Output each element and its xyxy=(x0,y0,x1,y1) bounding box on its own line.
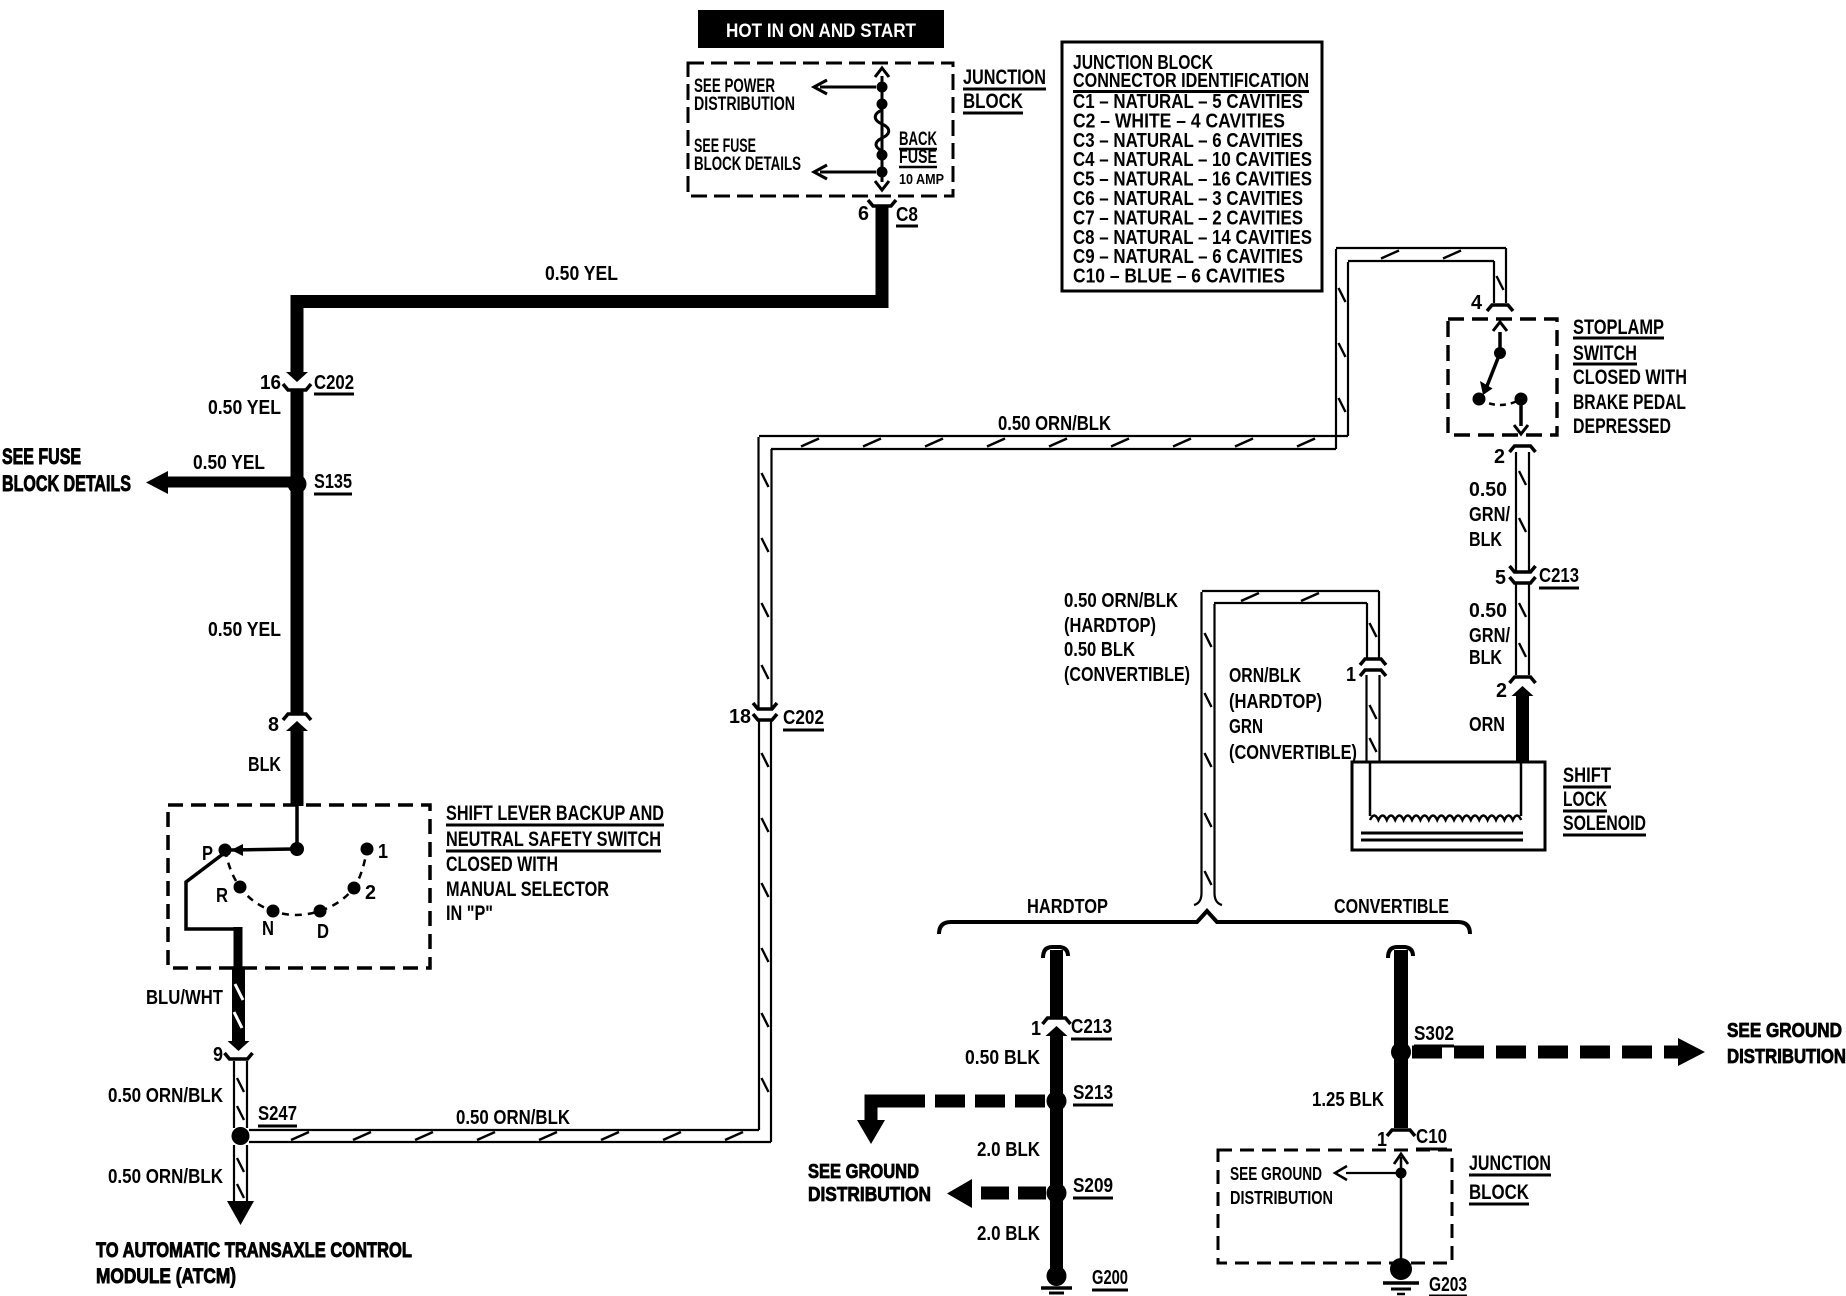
svg-text:C10: C10 xyxy=(1416,1126,1447,1148)
svg-text:ORN/BLK: ORN/BLK xyxy=(1229,665,1301,687)
svg-text:SEE GROUND: SEE GROUND xyxy=(1727,1020,1842,1042)
svg-text:0.50 ORN/BLK: 0.50 ORN/BLK xyxy=(456,1107,570,1129)
wire: 0.50 YEL horizontal xyxy=(291,295,889,308)
wire: drop to stoplamp pin 4 (hatched) xyxy=(1493,261,1495,303)
svg-text:GRN: GRN xyxy=(1229,716,1263,738)
fuse: BACK FUSE squiggle xyxy=(875,110,889,151)
svg-text:SHIFT: SHIFT xyxy=(1563,764,1611,787)
arrow SEE FUSE BLOCK DETAILS (S135) xyxy=(168,477,297,488)
node S247 xyxy=(232,1127,250,1145)
svg-text:HARDTOP: HARDTOP xyxy=(1027,896,1108,918)
shift lever switch dashed box xyxy=(168,805,430,968)
svg-text:CONNECTOR IDENTIFICATION: CONNECTOR IDENTIFICATION xyxy=(1073,70,1309,92)
svg-text:16: 16 xyxy=(260,372,281,394)
node S209 xyxy=(1047,1183,1067,1203)
svg-text:BLOCK DETAILS: BLOCK DETAILS xyxy=(2,471,131,496)
node S135 xyxy=(288,475,307,494)
svg-text:5: 5 xyxy=(1495,567,1506,589)
wire: S213 to S209 (thick) xyxy=(1050,1101,1063,1193)
wire 0.50 GRN/BLK lower (hatched) xyxy=(1515,583,1517,675)
svg-text:IN "P": IN "P" xyxy=(446,902,493,925)
wiper arrowhead at P xyxy=(231,844,243,856)
svg-text:(CONVERTIBLE): (CONVERTIBLE) xyxy=(1229,742,1357,764)
svg-text:1: 1 xyxy=(1377,1129,1387,1151)
arrow to ATCM xyxy=(227,1201,254,1225)
svg-text:MODULE (ATCM): MODULE (ATCM) xyxy=(96,1265,236,1288)
svg-text:0.50 ORN/BLK: 0.50 ORN/BLK xyxy=(998,413,1111,435)
svg-text:0.50 ORN/BLK: 0.50 ORN/BLK xyxy=(108,1166,223,1188)
svg-text:2.0 BLK: 2.0 BLK xyxy=(977,1223,1040,1245)
svg-text:JUNCTION: JUNCTION xyxy=(1469,1152,1551,1175)
svg-text:0.50 BLK: 0.50 BLK xyxy=(965,1047,1040,1069)
svg-text:2: 2 xyxy=(365,882,376,904)
header box HOT IN ON AND START xyxy=(698,10,944,48)
wire: top of inverted U (hatched) xyxy=(1202,590,1379,592)
svg-text:DISTRIBUTION: DISTRIBUTION xyxy=(694,94,795,115)
svg-text:S209: S209 xyxy=(1073,1175,1113,1197)
node: fuse block tap xyxy=(877,167,888,178)
connector stoplamp pin 4 xyxy=(1487,305,1513,311)
connector stoplamp pin 2 xyxy=(1510,446,1536,452)
svg-text:C213: C213 xyxy=(1539,565,1579,587)
svg-text:6: 6 xyxy=(858,203,869,225)
svg-text:2: 2 xyxy=(1496,680,1507,702)
wire 0.50 GRN/BLK upper (hatched) xyxy=(1515,452,1517,571)
svg-text:G203: G203 xyxy=(1429,1274,1467,1296)
junction block (top) dashed box xyxy=(688,63,953,196)
wire 0.50 ORN/BLK: pin9 to S247 (hatched) xyxy=(233,1061,235,1128)
contact P xyxy=(219,844,232,857)
svg-text:2.0 BLK: 2.0 BLK xyxy=(977,1139,1040,1161)
svg-text:(HARDTOP): (HARDTOP) xyxy=(1064,615,1156,637)
connector solenoid pin 1 xyxy=(1360,659,1386,665)
wire: pivot to P contact xyxy=(231,849,293,850)
contact 2 xyxy=(348,882,361,895)
svg-text:9: 9 xyxy=(213,1044,223,1066)
stoplamp: output arrow down xyxy=(1519,404,1523,426)
stoplamp: fixed contact top xyxy=(1494,347,1506,359)
node: power distribution tap xyxy=(877,82,888,93)
connector C10 pin 1 xyxy=(1387,1130,1415,1136)
wire: pin 1 to solenoid (hatched) xyxy=(1365,675,1367,762)
contact 1 xyxy=(361,843,374,856)
wire: switch feed (thin, inside box) xyxy=(295,806,299,845)
svg-text:1: 1 xyxy=(1031,1018,1041,1040)
connector C202 pin 18 xyxy=(753,703,777,709)
node S213 xyxy=(1047,1091,1067,1111)
svg-text:ORN: ORN xyxy=(1469,714,1505,736)
wire: vertical riser below C202-18 (hatched) xyxy=(758,719,760,1130)
wire ORN (thick) xyxy=(1516,694,1529,762)
wire: C8-6 down (thick) xyxy=(876,206,889,308)
svg-text:CLOSED WITH: CLOSED WITH xyxy=(1573,366,1687,389)
svg-text:GRN/: GRN/ xyxy=(1469,504,1510,526)
junction block connector identification box xyxy=(1062,42,1322,291)
svg-text:0.50 ORN/BLK: 0.50 ORN/BLK xyxy=(108,1085,223,1107)
ground G200 xyxy=(1047,1266,1067,1286)
junction block (bottom) dashed box xyxy=(1218,1150,1452,1263)
svg-text:1.25 BLK: 1.25 BLK xyxy=(1312,1089,1384,1111)
svg-text:8: 8 xyxy=(268,714,279,736)
svg-text:SEE GROUND: SEE GROUND xyxy=(808,1161,919,1183)
svg-text:S302: S302 xyxy=(1414,1023,1454,1045)
svg-text:DISTRIBUTION: DISTRIBUTION xyxy=(808,1184,931,1206)
svg-text:C10 – BLUE – 6 CAVITIES: C10 – BLUE – 6 CAVITIES xyxy=(1073,266,1285,288)
svg-text:0.50 YEL: 0.50 YEL xyxy=(208,397,281,419)
svg-text:SEE FUSE: SEE FUSE xyxy=(2,444,81,469)
hardtop wire top hook xyxy=(1043,947,1068,958)
svg-text:BLOCK: BLOCK xyxy=(963,90,1023,113)
wire: junction block internal bus xyxy=(881,76,884,182)
dashed arrow SEE GROUND DISTRIBUTION (S213) xyxy=(898,1095,1045,1108)
svg-text:SWITCH: SWITCH xyxy=(1573,342,1637,365)
svg-text:2: 2 xyxy=(1494,446,1505,468)
svg-text:HOT IN ON AND START: HOT IN ON AND START xyxy=(726,21,916,42)
wire: C213-1 to S213 (thick) xyxy=(1050,1034,1063,1101)
svg-text:C202: C202 xyxy=(314,372,354,394)
svg-text:(HARDTOP): (HARDTOP) xyxy=(1229,691,1322,713)
wire: C10 to G203 (thin, internal) xyxy=(1400,1157,1403,1265)
wire 0.50 ORN/BLK: S247 horizontal run (hatched) xyxy=(249,1129,759,1131)
svg-text:(CONVERTIBLE): (CONVERTIBLE) xyxy=(1064,664,1190,686)
solenoid: inner left wall xyxy=(1369,762,1372,816)
svg-text:BRAKE PEDAL: BRAKE PEDAL xyxy=(1573,391,1686,414)
wire: riser to top right (hatched) xyxy=(1335,249,1337,449)
arrow up (to power distribution feed) xyxy=(875,68,889,77)
svg-text:BLK: BLK xyxy=(248,754,281,776)
contact N xyxy=(267,905,280,918)
svg-text:BLOCK DETAILS: BLOCK DETAILS xyxy=(694,154,801,175)
svg-text:1: 1 xyxy=(1346,664,1356,686)
connector pin 9 xyxy=(228,1041,250,1051)
svg-text:DEPRESSED: DEPRESSED xyxy=(1573,415,1671,438)
svg-text:STOPLAMP: STOPLAMP xyxy=(1573,316,1664,339)
dashed arc through contacts xyxy=(225,849,367,915)
svg-text:0.50: 0.50 xyxy=(1469,600,1507,622)
stoplamp: contact right xyxy=(1515,393,1528,406)
svg-text:FUSE: FUSE xyxy=(899,147,937,168)
svg-text:D: D xyxy=(317,921,329,943)
wire end curls at brace xyxy=(1194,893,1202,905)
connector C213 pin 5 xyxy=(1510,566,1536,572)
node: switch pivot xyxy=(290,842,304,856)
wire: S209 to G200 (thick) xyxy=(1050,1193,1063,1271)
svg-text:C213: C213 xyxy=(1071,1016,1112,1038)
stoplamp: dashed arc between contacts xyxy=(1479,399,1521,405)
svg-text:BLU/WHT: BLU/WHT xyxy=(146,987,223,1009)
connector C213 pin 2 xyxy=(1510,677,1536,683)
svg-text:N: N xyxy=(262,918,274,940)
solenoid: inner right wall xyxy=(1520,762,1523,816)
svg-text:1: 1 xyxy=(378,841,388,863)
wire: 0.50 YEL down to C202-16 xyxy=(291,295,304,373)
svg-text:DISTRIBUTION: DISTRIBUTION xyxy=(1230,1188,1333,1208)
svg-text:18: 18 xyxy=(729,706,751,728)
wire ORN/BLK-GRN: brace riser (hatched) xyxy=(1200,592,1202,893)
wire: P contact to box exit xyxy=(186,854,238,929)
ground G203 xyxy=(1390,1258,1412,1280)
svg-text:MANUAL SELECTOR: MANUAL SELECTOR xyxy=(446,878,609,901)
connector C202 pin 8 xyxy=(283,714,311,720)
svg-text:R: R xyxy=(216,885,228,907)
wire: drop to solenoid pin 1 (hatched) xyxy=(1366,603,1368,659)
svg-text:S247: S247 xyxy=(258,1103,297,1125)
solenoid core lines xyxy=(1361,832,1523,835)
stoplamp switch dashed box xyxy=(1448,319,1557,435)
contact R xyxy=(234,881,247,894)
shift lock solenoid box xyxy=(1352,762,1545,850)
wire: top right horizontal (hatched) xyxy=(1336,247,1506,249)
arrow SEE GROUND DISTRIBUTION (internal) xyxy=(1346,1172,1401,1174)
node: fuse top xyxy=(877,99,888,110)
svg-text:G200: G200 xyxy=(1092,1267,1128,1289)
svg-text:0.50: 0.50 xyxy=(1469,479,1507,501)
svg-text:TO AUTOMATIC TRANSAXLE CONTROL: TO AUTOMATIC TRANSAXLE CONTROL xyxy=(96,1239,412,1262)
arrow down (back fuse output) xyxy=(875,181,889,190)
svg-text:SOLENOID: SOLENOID xyxy=(1563,812,1646,835)
svg-text:BLOCK: BLOCK xyxy=(1469,1181,1529,1204)
dashed arrow SEE GROUND DISTRIBUTION (S209) xyxy=(974,1187,1046,1200)
solenoid coil xyxy=(1370,816,1521,821)
brace hardtop/convertible xyxy=(939,911,1470,934)
wire 0.50 ORN/BLK: S247 down (hatched) xyxy=(233,1145,235,1201)
connector C213 pin 1 xyxy=(1043,1018,1071,1024)
node: fuse bottom xyxy=(877,150,888,161)
white stripe ticks on BLU/WHT xyxy=(235,984,243,1000)
svg-text:0.50 YEL: 0.50 YEL xyxy=(193,452,265,474)
svg-text:BLK: BLK xyxy=(1469,647,1502,669)
svg-text:S135: S135 xyxy=(314,471,352,493)
arrow SEE POWER DISTRIBUTION xyxy=(820,86,876,89)
svg-text:0.50 YEL: 0.50 YEL xyxy=(545,263,618,285)
svg-text:CONVERTIBLE: CONVERTIBLE xyxy=(1334,896,1449,918)
svg-text:BLK: BLK xyxy=(1469,529,1502,551)
wire: C202-8 into switch box xyxy=(291,729,304,806)
svg-text:NEUTRAL SAFETY SWITCH: NEUTRAL SAFETY SWITCH xyxy=(446,828,661,851)
svg-text:SHIFT LEVER BACKUP AND: SHIFT LEVER BACKUP AND xyxy=(446,802,664,825)
connector C8 pin 6 (cup) xyxy=(868,200,896,206)
wire: BLU/WHT (switch to pin 9) xyxy=(232,968,245,1042)
contact D xyxy=(314,905,327,918)
svg-text:S213: S213 xyxy=(1073,1082,1113,1104)
stoplamp: moving contact arm xyxy=(1487,353,1500,386)
svg-text:C8: C8 xyxy=(896,204,918,226)
svg-text:CLOSED WITH: CLOSED WITH xyxy=(446,853,558,876)
svg-text:GRN/: GRN/ xyxy=(1469,625,1510,647)
stoplamp: wire to pin 4 (internal) xyxy=(1498,332,1502,350)
node S302 xyxy=(1391,1042,1411,1062)
wire: convertible ground (thick) xyxy=(1394,950,1408,1128)
svg-text:SEE GROUND: SEE GROUND xyxy=(1230,1164,1322,1184)
svg-text:0.50 ORN/BLK: 0.50 ORN/BLK xyxy=(1064,590,1178,612)
stoplamp: arm arrowhead xyxy=(1480,381,1493,395)
wire: vertical riser above C202-18 (hatched) xyxy=(757,437,759,708)
connector C202 pin 16 xyxy=(286,372,308,382)
svg-text:0.50 YEL: 0.50 YEL xyxy=(208,619,281,641)
svg-text:0.50 BLK: 0.50 BLK xyxy=(1064,639,1135,661)
svg-text:4: 4 xyxy=(1471,292,1483,314)
wire 0.50 ORN/BLK: long horizontal (hatched) xyxy=(759,435,1348,437)
svg-text:DISTRIBUTION: DISTRIBUTION xyxy=(1727,1046,1846,1068)
svg-text:LOCK: LOCK xyxy=(1563,788,1607,811)
dashed arrow SEE GROUND DISTRIBUTION (S302) xyxy=(1412,1046,1678,1059)
node: junction block ground tap xyxy=(1396,1168,1407,1179)
svg-text:JUNCTION: JUNCTION xyxy=(963,66,1046,89)
convertible wire top hook xyxy=(1388,947,1413,958)
arrow up (into C10) xyxy=(1394,1154,1408,1164)
svg-text:10 AMP: 10 AMP xyxy=(899,171,944,188)
wire: C202-16 to S135 to C202-8 xyxy=(291,391,304,714)
svg-text:C202: C202 xyxy=(783,707,824,729)
arrow SEE FUSE BLOCK DETAILS (internal) xyxy=(820,171,876,174)
stoplamp: contact left xyxy=(1473,393,1486,406)
wire: hardtop ground upper (thick) xyxy=(1050,950,1063,1018)
